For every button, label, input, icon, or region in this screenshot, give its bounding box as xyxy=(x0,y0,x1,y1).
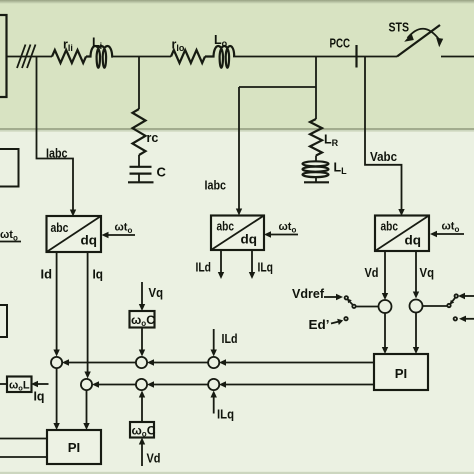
wire Iabc measurement middle xyxy=(205,87,243,216)
contact xyxy=(352,305,355,308)
contact xyxy=(345,296,348,299)
svg-text:abc: abc xyxy=(381,219,399,234)
wire woC to B xyxy=(139,328,145,357)
gain block woC bottom xyxy=(130,422,156,439)
abc-dq block U2 xyxy=(211,216,264,251)
wire Id xyxy=(41,252,60,357)
wire Vd xyxy=(365,251,389,300)
wire H to switch right xyxy=(423,305,447,307)
wire Vdref arrow xyxy=(324,294,343,300)
contact xyxy=(447,304,450,307)
wire Iq stub into woL xyxy=(31,381,49,404)
block left edge lower xyxy=(0,305,7,337)
wire A to PI xyxy=(53,369,59,431)
svg-text:Vabc: Vabc xyxy=(370,149,397,164)
wire input to upper contact xyxy=(458,293,474,299)
wire rc branch xyxy=(138,57,140,110)
wire tap to Iabc2 xyxy=(239,86,316,88)
svg-text:dq: dq xyxy=(241,232,258,247)
svg-text:Iq: Iq xyxy=(93,267,104,282)
wire ILq stub to F xyxy=(211,391,235,422)
abc-dq block U1 xyxy=(47,216,102,252)
switch blade xyxy=(348,299,353,305)
summing node A xyxy=(51,357,62,368)
wire Vd stub into woC xyxy=(139,438,161,467)
wire ILq output U2 xyxy=(249,250,273,279)
wt_o input U3 xyxy=(430,221,464,238)
svg-text:Vd: Vd xyxy=(147,451,161,466)
abc-dq block U3 xyxy=(375,216,429,252)
svg-text:abc: abc xyxy=(51,220,69,235)
PI controller left xyxy=(47,430,101,464)
wire E to D xyxy=(92,381,136,387)
svg-text:Vq: Vq xyxy=(149,285,164,300)
wire Ed' arrow xyxy=(331,319,343,325)
wire H to PI right xyxy=(413,313,419,354)
wire ILd output U2 xyxy=(196,250,225,279)
svg-text:ILd: ILd xyxy=(222,331,238,346)
summing node F xyxy=(208,379,219,390)
wire ILd stub to C xyxy=(211,329,238,357)
STS switch xyxy=(389,20,444,57)
summing node B xyxy=(136,357,147,368)
svg-text:Vq: Vq xyxy=(420,265,435,280)
block left edge upper xyxy=(0,149,19,187)
svg-text:PCC: PCC xyxy=(330,36,351,51)
wire PI left output 2 xyxy=(0,456,47,458)
svg-text:Vd: Vd xyxy=(365,265,379,280)
three-phase slashes xyxy=(17,45,36,69)
wire under wt_o xyxy=(0,241,21,243)
svg-text:ILq: ILq xyxy=(258,260,274,275)
svg-text:Vdref: Vdref xyxy=(292,286,325,301)
wire G to PI right xyxy=(382,313,388,354)
summing node C xyxy=(208,357,219,368)
svg-text:rc: rc xyxy=(147,131,159,145)
PCC bus mark xyxy=(330,36,357,68)
summing node G xyxy=(379,300,392,313)
svg-text:dq: dq xyxy=(405,233,422,248)
wire input to lower contact xyxy=(459,316,474,322)
inductor L_L xyxy=(303,156,348,183)
wire main bus to switch xyxy=(233,56,397,58)
resistor rc xyxy=(133,109,159,155)
wire C to B xyxy=(147,359,208,365)
contact xyxy=(454,317,457,320)
wire D to PI xyxy=(83,391,89,431)
gain block woL xyxy=(7,377,32,393)
svg-text:PI: PI xyxy=(395,366,407,381)
resistor R_lo xyxy=(171,38,205,64)
svg-text:Iabc: Iabc xyxy=(205,178,227,193)
wt_o input U2 xyxy=(264,221,298,238)
summing node D xyxy=(81,379,92,390)
svg-text:Id: Id xyxy=(41,267,53,282)
wire Iq xyxy=(84,252,103,379)
PI controller right xyxy=(374,354,428,390)
wire woL output left xyxy=(0,383,7,385)
summing node H xyxy=(410,300,423,313)
wt_o input U1 xyxy=(102,222,136,239)
wire Vq stub into woC xyxy=(139,282,163,311)
resistor R_li xyxy=(52,38,86,64)
wire PI right to C xyxy=(219,359,374,365)
wire PI right to F xyxy=(219,381,374,387)
svg-text:abc: abc xyxy=(217,219,235,234)
wire F to E xyxy=(147,381,208,387)
wire switch to G xyxy=(356,306,378,308)
wire xyxy=(7,56,53,58)
inductor L_i xyxy=(86,36,113,68)
wire load tap xyxy=(315,57,317,120)
svg-text:Iq: Iq xyxy=(34,389,45,404)
wire xyxy=(113,56,171,58)
svg-text:PI: PI xyxy=(68,440,80,455)
contact xyxy=(344,317,347,320)
svg-text:STS: STS xyxy=(389,20,410,35)
resistor L_R xyxy=(310,119,339,156)
svg-text:ILd: ILd xyxy=(196,260,212,275)
wire B to A xyxy=(62,359,136,365)
svg-text:ILq: ILq xyxy=(217,407,234,422)
wire Iabc tap xyxy=(37,57,77,217)
capacitor C xyxy=(128,155,167,182)
svg-text:Iabc: Iabc xyxy=(46,146,68,161)
contact xyxy=(455,294,458,297)
svg-text:Ed’: Ed’ xyxy=(309,317,330,332)
wire Vq xyxy=(413,251,434,299)
wire right bus xyxy=(441,56,474,58)
summing node E xyxy=(136,379,147,390)
svg-text:C: C xyxy=(157,165,167,180)
wire PI left output 1 xyxy=(0,438,47,440)
inductor L_o xyxy=(205,33,234,68)
switch blade right xyxy=(450,298,455,304)
inverter box xyxy=(0,15,7,97)
svg-text:dq: dq xyxy=(81,233,98,248)
wire Vabc tap xyxy=(365,57,405,217)
wire woC bottom to E xyxy=(139,391,145,423)
gain block woC top xyxy=(130,311,156,328)
